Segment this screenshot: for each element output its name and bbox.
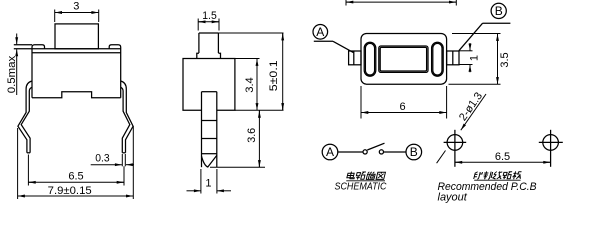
- svg-text:6.5: 6.5: [68, 171, 83, 183]
- svg-text:2-ø1.3: 2-ø1.3: [457, 90, 485, 123]
- svg-text:B: B: [410, 145, 418, 159]
- svg-text:6: 6: [399, 101, 405, 113]
- svg-text:A: A: [326, 145, 334, 159]
- svg-text:7.9±0.15: 7.9±0.15: [48, 185, 92, 197]
- svg-text:3: 3: [73, 1, 79, 13]
- svg-text:1: 1: [468, 55, 480, 61]
- svg-text:B: B: [495, 4, 503, 18]
- svg-text:3.6: 3.6: [246, 128, 258, 143]
- svg-text:1.5: 1.5: [202, 10, 217, 22]
- svg-text:0.3: 0.3: [95, 153, 109, 165]
- svg-text:6.5: 6.5: [495, 151, 510, 163]
- svg-text:3.4: 3.4: [244, 77, 256, 93]
- svg-text:5±0.1: 5±0.1: [268, 60, 280, 91]
- svg-text:layout: layout: [438, 192, 468, 204]
- svg-text:A: A: [316, 25, 324, 39]
- svg-text:1: 1: [205, 178, 211, 190]
- svg-text:0.5max: 0.5max: [6, 55, 18, 93]
- svg-text:SCHEMATIC: SCHEMATIC: [335, 182, 388, 193]
- svg-text:3.5: 3.5: [499, 52, 511, 67]
